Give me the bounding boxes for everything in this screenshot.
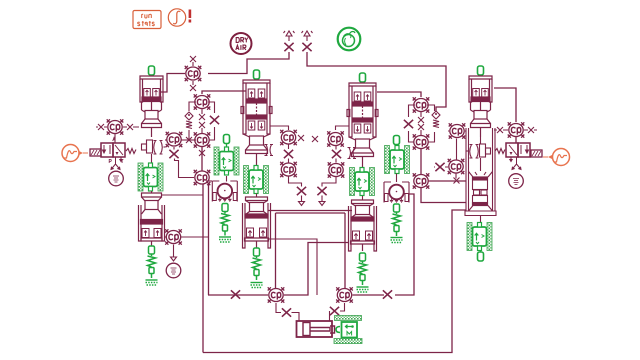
col3 rod2: [362, 196, 364, 200]
flow meter Cp L6: [194, 170, 211, 185]
wire X2 to right check valve: [307, 52, 446, 111]
valve X between L9/L10: [284, 150, 293, 158]
wire L1 up/down stubs: [192, 62, 194, 85]
wire L8 up: [275, 213, 277, 288]
junction tick L5/L4: [186, 137, 192, 143]
col4 end pill: [478, 252, 484, 261]
col2 heat exchanger HX-C: [244, 166, 269, 194]
rail right of L13: [353, 294, 385, 296]
exhaust arrow col3: [319, 196, 325, 206]
col4 heat exchanger HX-F: [467, 223, 492, 251]
rail y295 left: [208, 294, 268, 296]
col4 coupling: [467, 144, 491, 158]
col2 signal pill: [254, 70, 260, 79]
flow meter Cp R5: [449, 123, 466, 138]
orange signal source left: [62, 145, 88, 162]
valve X below L5: [169, 150, 178, 158]
flow meter Cp L12: [328, 162, 345, 177]
gauge below left valve: [109, 171, 124, 186]
flow meter Cp L4: [194, 132, 211, 147]
motor hatch top: [335, 316, 362, 321]
flow meter Cp L2 above left valve: [107, 119, 124, 134]
wire L8 down to cyl X: [276, 303, 281, 313]
wire rail B L8-L13 top: [276, 212, 346, 214]
col3 heat exchanger HX-D: [350, 168, 375, 196]
port tick left of L11: [312, 136, 318, 142]
wire L4 to L6: [201, 147, 203, 171]
col1 signal pill: [149, 66, 155, 75]
tick below L1: [190, 85, 196, 91]
port tick below L4: [199, 150, 205, 156]
shutoff valve X1 top: [284, 43, 293, 51]
wire through R6: [494, 129, 537, 131]
valve X between L11/L12: [332, 150, 341, 158]
wire col2 to L9: [270, 126, 289, 130]
L7 bottom stub: [173, 245, 175, 252]
wire L5 to L4: [181, 139, 196, 141]
col4 rod: [480, 137, 482, 171]
wire L6 right to pump yoke: [206, 180, 212, 182]
gauge below right valve: [509, 174, 524, 189]
vent V1: [284, 31, 295, 41]
rail to pump P2 riser: [395, 194, 414, 295]
shutoff valve X2 top: [302, 43, 311, 51]
wire upper rail between col2 col3: [268, 210, 352, 212]
motor body: [342, 322, 358, 338]
R5 stubs: [448, 130, 466, 132]
valve X on right ring: [404, 120, 413, 128]
flow meter Cp R2: [413, 134, 430, 149]
wire col4 top to R6 and valve: [494, 88, 516, 143]
col4 pill stem: [480, 251, 482, 253]
run stats block: [133, 11, 161, 29]
wire HX-B to pump yoke: [226, 176, 228, 182]
check valve CV1: [185, 112, 193, 129]
wire R3 down to col4 lower port: [421, 188, 466, 203]
wire L7 right to down rail: [181, 236, 209, 238]
wire L13 up: [344, 213, 346, 288]
directional valve right: [495, 143, 542, 157]
flow meter Cp R3: [413, 173, 430, 188]
pump P1 ground: [219, 237, 231, 242]
col1 lower cylinder: [139, 193, 165, 246]
wire col3 to L11: [336, 126, 350, 130]
col4 crosshead assembly: [465, 128, 496, 223]
wire right valve P down: [510, 157, 521, 170]
valve X on left rail: [231, 290, 240, 298]
heat exchanger HX-B between col1/col2: [214, 147, 239, 175]
col3 crosshead bowtie: [348, 148, 357, 159]
col1 rod: [151, 154, 153, 163]
valve X left of L2: [98, 124, 104, 130]
valve X bottom-right of cylinder: [330, 307, 339, 315]
col4 upper cylinder: [469, 76, 492, 137]
col1 rod2: [151, 191, 153, 193]
col1 coupling: [142, 140, 166, 154]
wire L2 to valve port A: [114, 134, 116, 143]
flow meter Cp L1: [185, 66, 202, 81]
valve X right of R6: [528, 127, 534, 133]
flow meter Cp L8: [268, 287, 285, 302]
wire col1 crosshead to rail: [162, 194, 204, 196]
wire L13 down to cyl X: [340, 303, 345, 311]
col2 lower cylinder: [243, 197, 271, 248]
L5 left stub: [165, 139, 167, 141]
directional valve left: [90, 137, 136, 163]
col2 ground: [251, 283, 263, 288]
wire L10 to X exhaust: [289, 177, 302, 187]
col3 upper cylinder: [347, 83, 378, 168]
valve X left of R6: [497, 127, 503, 133]
col4 signal pill: [478, 66, 484, 75]
valve X col3 exhaust: [317, 187, 326, 195]
flow meter Cp R4: [448, 159, 465, 174]
valve X on right rail: [383, 290, 392, 298]
exhaust below L7: [171, 251, 177, 261]
HX-E top pill: [394, 136, 400, 145]
pump P1 spring: [221, 204, 229, 236]
R4 bottom tick: [455, 174, 457, 179]
ring loop R1-R2: [409, 105, 435, 142]
ring loop L3-L4: [189, 102, 215, 140]
apple/fruit monitor icon: [338, 28, 361, 51]
gauge below L7: [166, 263, 181, 278]
DRY AIR source: [231, 33, 252, 54]
flow meter Cp L9: [280, 130, 297, 145]
valve X on ring: [210, 116, 219, 124]
flow meter Cp R6 above right valve: [508, 122, 525, 137]
HX-B pill stem: [226, 144, 228, 148]
motor hatch bottom: [334, 339, 362, 344]
wire L12 to X exhaust: [322, 177, 336, 187]
flow meter Cp L11: [327, 131, 344, 146]
wire R2 to R3: [420, 149, 422, 174]
port ticks between L3/L4: [199, 114, 205, 120]
col3 ground: [357, 287, 369, 292]
wire X1 to Cp rail: [208, 52, 289, 74]
wire L5-X down to L6 left: [175, 159, 195, 178]
tick above L1: [190, 56, 196, 62]
col2 upper cylinder: [241, 80, 272, 165]
col2 rod2: [256, 194, 258, 198]
bottom actuator cylinder: [297, 321, 335, 337]
wire through L2: [96, 126, 139, 128]
integral monitor icon: [168, 9, 191, 26]
valve X left of R4: [435, 163, 444, 171]
pump P2 ground: [391, 238, 403, 243]
long left vertical + bottom rail: [203, 210, 466, 353]
port tick right of L9: [298, 135, 304, 141]
port ticks between R1/R2: [418, 117, 424, 123]
col1 spring: [148, 246, 156, 278]
wire second down rail x208.5: [208, 184, 210, 295]
pump P2: [384, 182, 409, 203]
flow meter Cp L10: [280, 162, 297, 177]
flow meter Cp L13: [336, 287, 353, 302]
col3 lower cylinder: [349, 200, 377, 251]
wire X to cylinder port: [292, 313, 300, 322]
exhaust arrow col2: [299, 196, 305, 206]
flow meter Cp L3: [194, 94, 211, 109]
pump P1: [212, 181, 237, 202]
col1 ground: [146, 280, 158, 285]
wire col2 top to Cp L3: [202, 91, 246, 94]
wire R5 to R4 link: [456, 139, 458, 160]
orange signal source right: [543, 149, 570, 166]
flow meter Cp L7: [165, 229, 182, 244]
pump P2 spring: [393, 204, 401, 236]
vent V2: [302, 31, 313, 41]
wire L6 bottom down long rail: [202, 184, 204, 353]
flow meter Cp R1: [413, 97, 430, 112]
valve X col2 exhaust: [297, 187, 306, 195]
col2 crosshead bowtie: [265, 145, 274, 156]
col3 signal pill: [360, 73, 366, 82]
valve X right of L2: [127, 124, 133, 130]
col3 spring: [359, 253, 367, 285]
motor clevis: [336, 327, 340, 333]
wire col3 top to R1: [377, 92, 421, 97]
wire HX-E to pump P2: [396, 174, 398, 183]
wire R3 right to col4: [428, 180, 466, 182]
wire L1 to column1 top: [161, 74, 185, 93]
HX-B top pill: [224, 135, 230, 144]
flow meter Cp L5 right of col1: [166, 132, 183, 147]
wire col2 port to riser x317: [269, 239, 318, 295]
col1 upper cylinder: [140, 76, 163, 137]
heat exchanger HX-E between col3/col4: [385, 146, 410, 174]
wire valve P down + T exhaust: [111, 157, 122, 170]
wire X to cylinder right port: [329, 311, 331, 321]
col1 heat exchanger HX-A: [138, 163, 163, 191]
HX-E pill stem: [396, 145, 398, 147]
L7 left stub: [165, 236, 167, 238]
check valve CV2: [432, 111, 440, 128]
valve X bottom-left of cylinder: [282, 308, 291, 316]
rail L8 to corner up: [284, 243, 348, 296]
col2 spring: [253, 248, 261, 280]
